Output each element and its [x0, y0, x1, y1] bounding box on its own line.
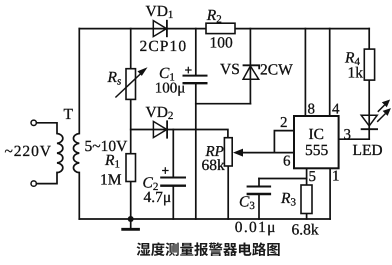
svg-text:6: 6: [283, 154, 291, 170]
resistor R2: [206, 23, 235, 33]
transformer primary terminal top: [31, 120, 36, 125]
resistor Rs arrow: [115, 72, 143, 98]
wire pin6 to RP wiper: [239, 152, 294, 154]
wire C1 branch upper: [195, 29, 197, 76]
transformer T primary coil: [57, 134, 63, 173]
diode VD2: [153, 121, 166, 137]
svg-text:3: 3: [344, 127, 352, 143]
svg-text:100: 100: [210, 34, 234, 51]
svg-text:LED: LED: [353, 142, 383, 159]
wire R4 branch and LED lead: [368, 29, 370, 140]
transformer T secondary coil: [73, 134, 79, 173]
wire VD2 node to RP top: [131, 130, 228, 138]
LED arrow 2: [377, 114, 385, 122]
resistor R1: [126, 154, 136, 182]
svg-text:T: T: [64, 106, 74, 123]
capacitor C1: [183, 75, 208, 77]
wire C2 top lead: [172, 130, 174, 178]
wire zener branch: [249, 29, 251, 104]
LED arrow 1: [378, 105, 385, 112]
svg-text:2: 2: [280, 115, 288, 131]
svg-text:+: +: [162, 163, 170, 178]
capacitor C3: [247, 186, 272, 188]
LED: [361, 115, 377, 126]
wire C1 branch lower (ground line): [195, 83, 197, 219]
capacitor C2: [160, 177, 186, 179]
wire pin2: [274, 131, 294, 153]
wire C3 top stub: [258, 179, 260, 187]
wire pin5 branch: [306, 168, 308, 219]
ground: [128, 216, 134, 222]
zener diode VS 2CW: [243, 66, 259, 79]
svg-text:6.8k: 6.8k: [292, 222, 319, 239]
potentiometer RP: [224, 138, 232, 166]
wire C2 bottom lead: [172, 186, 174, 219]
svg-text:100μ: 100μ: [155, 80, 186, 96]
resistor Rs (humidity sensor): [126, 69, 136, 100]
wire bottom rail: [79, 218, 330, 220]
wire transformer primary bottom: [37, 173, 58, 184]
svg-text:0.01μ: 0.01μ: [235, 219, 277, 236]
wire C3 bottom stub: [258, 194, 260, 219]
resistor R3: [301, 185, 312, 214]
svg-text:4.7μ: 4.7μ: [144, 189, 172, 206]
svg-text:68k: 68k: [202, 157, 226, 174]
transformer primary terminal bottom: [31, 181, 36, 186]
wire secondary bottom lead: [78, 173, 80, 220]
svg-text:1M: 1M: [100, 172, 122, 189]
wire pin1 branch: [329, 168, 331, 219]
svg-text:IC: IC: [309, 126, 325, 143]
potentiometer RP wiper arrow: [233, 149, 243, 157]
svg-text:1: 1: [332, 168, 340, 184]
svg-text:2CW: 2CW: [260, 62, 293, 79]
wire Rs-R1 branch: [130, 29, 132, 219]
svg-text:8: 8: [308, 102, 316, 118]
svg-text:555: 555: [305, 142, 329, 159]
wire pin3 to LED cathode: [339, 138, 370, 140]
wire C3 to pin5: [259, 178, 307, 180]
svg-text:5: 5: [309, 169, 317, 185]
wire RP bottom lead: [227, 166, 229, 219]
wire pin8 branch: [304, 29, 306, 116]
svg-text:~220V: ~220V: [5, 143, 52, 160]
op-amp IC 555 box: [294, 116, 339, 168]
svg-text:4: 4: [332, 102, 340, 118]
resistor R4: [364, 49, 374, 80]
wire left vertical (secondary top lead): [78, 29, 80, 134]
svg-text:+: +: [185, 62, 193, 77]
svg-text:1k: 1k: [348, 65, 364, 82]
wire pin4 branch: [329, 29, 331, 116]
wire zener-bottom to ground line: [196, 103, 251, 105]
diode VD1: [153, 21, 166, 37]
wire transformer primary top: [37, 123, 58, 134]
svg-text:2CP10: 2CP10: [140, 38, 188, 55]
wire top rail: [79, 28, 369, 30]
svg-text:VS: VS: [220, 61, 240, 78]
caption 湿度测量报警器电路图: [137, 242, 280, 256]
